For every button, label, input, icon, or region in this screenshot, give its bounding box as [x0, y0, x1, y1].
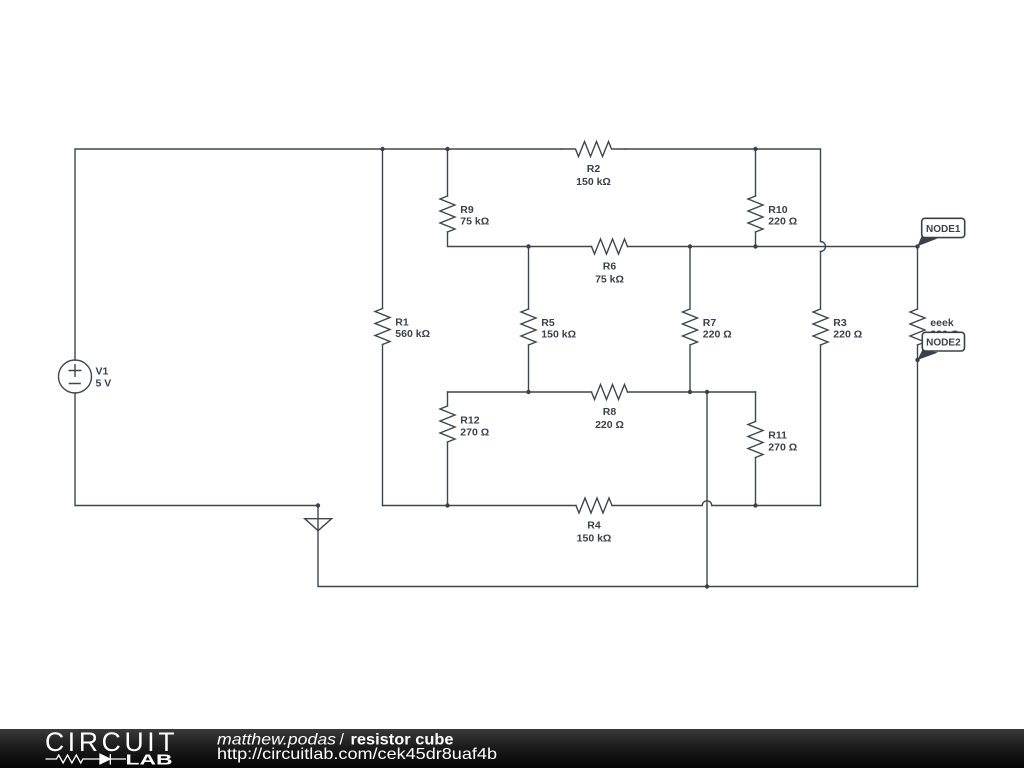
- node dot mid vertical top: [705, 390, 709, 394]
- svg-text:75 kΩ: 75 kΩ: [460, 216, 489, 228]
- resistor R2: [562, 142, 626, 157]
- wire R10 upper lead: [755, 149, 757, 196]
- wire R9 upper lead: [447, 149, 449, 196]
- wire middle vertical to bottom: [706, 392, 708, 587]
- svg-text:150 kΩ: 150 kΩ: [577, 532, 612, 544]
- wire R7 upper lead: [689, 247, 691, 310]
- svg-text:LAB: LAB: [126, 752, 173, 768]
- svg-text:R10: R10: [768, 204, 787, 216]
- wire top-right: [626, 149, 821, 242]
- svg-text:R8: R8: [603, 406, 617, 418]
- node dot R9 top: [445, 147, 449, 151]
- footer bar: [0, 729, 1024, 768]
- resistor R7: [683, 309, 698, 345]
- resistor R3: [813, 309, 828, 345]
- wire R8 row left: [448, 391, 592, 393]
- resistor R11: [748, 422, 763, 458]
- svg-text:R6: R6: [603, 261, 617, 273]
- wire R5 upper lead: [528, 247, 530, 310]
- flag NODE2: [917, 332, 964, 360]
- wire eeek lower lead: [917, 345, 919, 587]
- svg-text:220 Ω: 220 Ω: [833, 329, 862, 341]
- node dot mid vertical bottom: [705, 584, 709, 588]
- svg-text:150 kΩ: 150 kΩ: [576, 176, 611, 188]
- wire R5 lower lead: [528, 345, 530, 392]
- resistor R8: [592, 385, 628, 400]
- wire V1 minus to ground junction: [75, 393, 318, 506]
- node dot R7 bottom: [688, 390, 692, 394]
- wire R1 lower lead: [382, 345, 384, 506]
- resistor R6: [592, 239, 628, 254]
- svg-text:R4: R4: [587, 520, 601, 532]
- node dot R5 top: [526, 244, 530, 248]
- svg-text:R2: R2: [587, 163, 601, 175]
- wire hop R3 over R6 row: [821, 242, 826, 252]
- node dot R10 bottom: [753, 244, 757, 248]
- resistor R9: [440, 196, 455, 232]
- node dot R5 bottom: [526, 390, 530, 394]
- svg-text:R3: R3: [833, 317, 847, 329]
- wire R4 row with hop over middle vertical: [612, 501, 821, 506]
- svg-text:5 V: 5 V: [96, 378, 112, 390]
- wire eeek upper lead: [917, 247, 919, 310]
- svg-text:220 Ω: 220 Ω: [595, 419, 624, 431]
- svg-text:270 Ω: 270 Ω: [460, 426, 489, 438]
- wire R9 lower lead and R6 row left: [448, 232, 592, 247]
- svg-text:V1: V1: [96, 366, 109, 378]
- voltage source V1: [59, 360, 92, 393]
- svg-text:R12: R12: [460, 414, 479, 426]
- svg-text:NODE2: NODE2: [926, 338, 961, 349]
- resistor R10: [748, 196, 763, 232]
- ground: [305, 519, 332, 531]
- node dot NODE1 attach: [915, 244, 919, 248]
- wire R3 upper lead: [820, 252, 822, 310]
- node dot ground junction: [316, 503, 320, 507]
- svg-text:270 Ω: 270 Ω: [768, 442, 797, 454]
- svg-text:NODE1: NODE1: [926, 224, 961, 235]
- wire R8 row right: [628, 391, 756, 393]
- svg-text:R9: R9: [460, 204, 474, 216]
- svg-text:R5: R5: [541, 317, 555, 329]
- svg-text:220 Ω: 220 Ω: [703, 329, 732, 341]
- svg-text:560 kΩ: 560 kΩ: [395, 328, 430, 340]
- node dot R11 bottom: [753, 503, 757, 507]
- wire R10 lower lead: [755, 232, 757, 247]
- wire R11 upper lead: [755, 392, 757, 422]
- svg-text:http://circuitlab.com/cek45dr8: http://circuitlab.com/cek45dr8uaf4b: [217, 746, 497, 763]
- svg-text:R7: R7: [703, 317, 717, 329]
- resistor R5: [521, 309, 536, 345]
- resistor R12: [440, 406, 455, 442]
- node dot NODE2 attach: [915, 358, 919, 362]
- wire ground junction down and bottom run: [318, 506, 918, 587]
- svg-text:75 kΩ: 75 kΩ: [595, 273, 624, 285]
- svg-text:eeek: eeek: [930, 317, 954, 329]
- svg-text:220 Ω: 220 Ω: [768, 216, 797, 228]
- wire R7 lower lead: [689, 345, 691, 392]
- node dot R7 top: [688, 244, 692, 248]
- node dot R1 top: [380, 147, 384, 151]
- wire R6 row right to NODE1 point: [628, 246, 918, 248]
- node dot R10 top: [753, 147, 757, 151]
- resistor R4: [576, 498, 612, 513]
- wire R3 lower lead to R4 row: [820, 345, 822, 506]
- node dot R12 bottom: [445, 503, 449, 507]
- wire R1 upper lead: [382, 149, 384, 309]
- resistor eeek: [910, 309, 925, 345]
- svg-text:R1: R1: [395, 317, 409, 329]
- wire R12 upper lead: [447, 392, 449, 406]
- wire R11 lower lead: [755, 458, 757, 506]
- resistor R1: [375, 309, 390, 345]
- wire R12 lower lead: [447, 442, 449, 506]
- wire top-left from V1 plus up and across top: [75, 149, 562, 360]
- wire R4 row left: [383, 505, 577, 507]
- footer logo squiggle resistor and diode: [46, 754, 127, 765]
- svg-text:R11: R11: [768, 430, 787, 442]
- flag NODE1: [918, 218, 965, 246]
- svg-text:150 kΩ: 150 kΩ: [541, 329, 576, 341]
